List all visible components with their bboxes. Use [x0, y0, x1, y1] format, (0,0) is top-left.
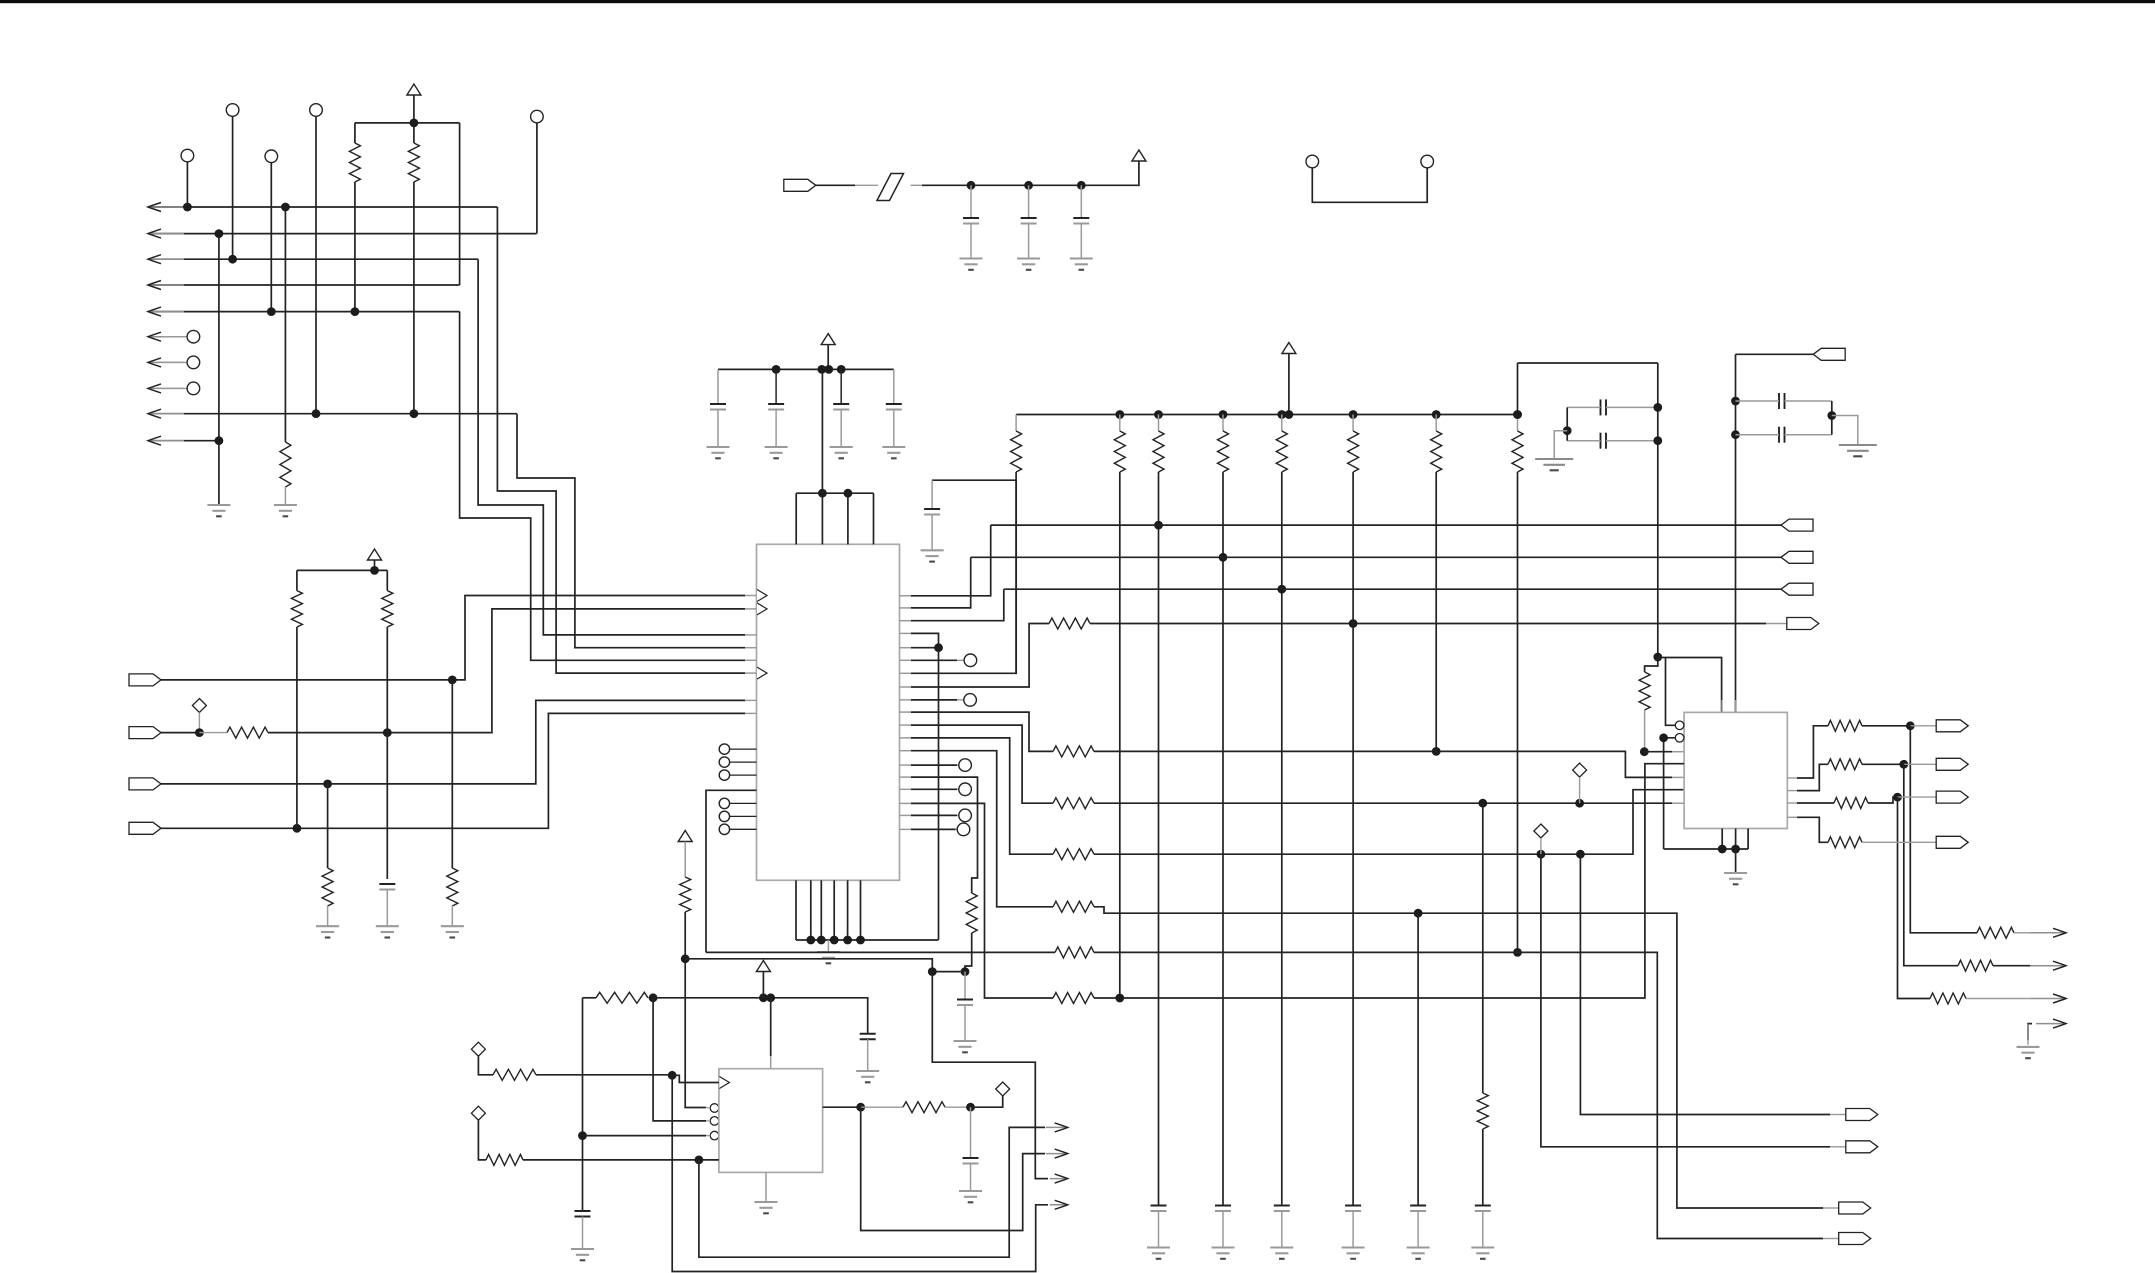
wire diamond854 stem: [1540, 838, 1542, 854]
wire col219: [218, 234, 220, 505]
wire p633: [911, 633, 939, 647]
junction row623: [1349, 619, 1358, 628]
terminal circle r8: [187, 382, 200, 395]
junction rail414: [1115, 410, 1124, 419]
wire row997 left: [583, 997, 597, 999]
wire col1482 a: [1482, 803, 1484, 1093]
wire tag1208 lead: [1823, 1207, 1839, 1209]
wire col685 drop: [685, 959, 706, 1108]
power arrow VCC5: [1282, 343, 1296, 354]
wire bus row r10: [152, 440, 219, 442]
wire rail 570: [297, 569, 387, 571]
wire stub r7: [162, 361, 187, 363]
wire res1644 link: [1645, 657, 1658, 672]
wire cap932 drop: [931, 480, 933, 509]
junction 685-958: [681, 954, 690, 963]
pin stub U2 r3: [1787, 802, 1797, 804]
arrow right q932: [2030, 928, 2066, 937]
wire bank top 1436: [1435, 415, 1437, 432]
junction rail414: [1219, 410, 1228, 419]
pin stub U1 right: [900, 802, 912, 804]
wire VCC1 stem: [413, 95, 415, 123]
wire cap970 drop: [970, 1107, 972, 1158]
wire bus row r4: [152, 284, 460, 286]
wire col387 mid: [386, 627, 388, 733]
wire row1107 lead: [945, 1106, 971, 1108]
pin stub U1 right: [900, 659, 912, 661]
wire cc1 right: [1606, 406, 1658, 408]
junction t2-diamond: [195, 728, 204, 737]
wire b2: [1664, 738, 1676, 849]
resistor row1107: [903, 1102, 945, 1113]
junction cd2: [1731, 430, 1740, 439]
wire tag1146 lead: [1830, 1146, 1846, 1148]
wire U1 tp4: [873, 493, 875, 544]
wire cap gnd: [893, 410, 895, 448]
wire p712: [911, 712, 1053, 751]
arrow left r9: [148, 409, 184, 418]
ground rail369: [707, 447, 730, 458]
resistor col971: [966, 893, 977, 933]
wire col971 lower: [965, 933, 972, 972]
wire tag1114 lead: [1830, 1114, 1846, 1116]
capacitor rail369: [886, 404, 902, 410]
wire v1910: [1910, 726, 1977, 933]
resistor R_b: [408, 143, 419, 182]
wire stair1: [460, 312, 745, 661]
pin stub U1 right: [900, 788, 912, 790]
pin input arrow U1: [757, 667, 767, 679]
wire q725 out: [1862, 725, 1910, 727]
resistor row623: [1049, 618, 1090, 629]
wire row971: [932, 971, 965, 973]
ic U2: [1684, 712, 1787, 828]
arrow left r10: [148, 436, 184, 445]
pin stub U2 r4: [1787, 816, 1797, 818]
wire row751 stub: [1644, 751, 1672, 753]
junction row997 770: [766, 993, 775, 1002]
pin stub U1 left: [745, 659, 757, 661]
capacitor rail369: [768, 404, 784, 410]
arrow right out1204: [1050, 1200, 1068, 1209]
wire d1 row: [536, 1074, 672, 1076]
pin circle stub: [730, 828, 757, 830]
pin circle U1 left: [719, 824, 729, 834]
junction rail414 tri: [1285, 410, 1294, 419]
wire p699: [911, 699, 957, 701]
net tag out623: [1787, 618, 1819, 630]
wire botcap gnd 1353: [1352, 1211, 1354, 1248]
pin stub U2 r2: [1787, 790, 1797, 792]
wire row997 lead: [648, 997, 653, 999]
wire p660: [911, 659, 957, 661]
terminal circle E: [265, 150, 278, 163]
wire cc2 right: [1606, 440, 1658, 442]
wire p803: [911, 803, 1053, 998]
pin clock arrow U3: [719, 1077, 729, 1089]
wire u2 bottom: [1664, 848, 1749, 850]
wire E drop: [270, 163, 272, 312]
pin circle stub: [730, 748, 757, 750]
wire col672: [672, 1075, 1048, 1271]
diamond row803: [1573, 763, 1587, 777]
wire q803 jog: [1868, 797, 1898, 803]
wire col685 low: [684, 912, 686, 959]
arrow right out1127: [1046, 1123, 1068, 1132]
pin input arrow U1: [757, 603, 767, 615]
pin circle stub: [730, 761, 757, 763]
ground col387: [376, 926, 399, 937]
pin circle U1 left: [719, 770, 729, 780]
wire row952 b: [1094, 952, 1823, 1238]
wire cc bracket: [1566, 407, 1568, 440]
capacitor col932: [924, 509, 940, 515]
junction bead rail: [967, 181, 976, 190]
junction bead rail: [1077, 181, 1086, 190]
pin stub U1 right: [900, 814, 912, 816]
capacitor col867: [860, 1034, 876, 1040]
wire cap gnd: [840, 410, 842, 448]
arrow right q965: [2030, 961, 2066, 970]
pin stub U2 r1: [1787, 777, 1797, 779]
wire VCC2 stem: [374, 560, 376, 570]
wire bead rail: [922, 162, 1139, 186]
resistor bank 1158: [1153, 431, 1164, 472]
wire row623: [1090, 623, 1766, 625]
wire t2 diamond stem: [198, 713, 200, 733]
diamond d1: [471, 1042, 485, 1056]
wire U1 bottom bus: [796, 939, 939, 941]
wire U1 tp2: [821, 493, 823, 544]
net tag q764: [1936, 758, 1968, 770]
wire v938: [938, 648, 940, 940]
wire q790: [1797, 764, 1828, 790]
wire r4 riser: [459, 123, 461, 285]
ground col1482: [1471, 1248, 1494, 1259]
resistor R_a: [349, 143, 360, 182]
wire v1903: [1904, 764, 1958, 965]
capacitor cd1: [1779, 393, 1785, 409]
junction row998 1119: [1115, 994, 1124, 1003]
capacitor tm: [1073, 218, 1089, 224]
junction rail414: [1432, 410, 1441, 419]
arrow right out1153: [1046, 1149, 1068, 1158]
wire bank top 1158: [1158, 415, 1160, 432]
wire R_a bottom: [354, 182, 356, 312]
ground brk: [2017, 1047, 2040, 1058]
wire p687: [911, 624, 1049, 688]
resistor bank 1223: [1218, 431, 1229, 472]
wire q764 lead: [1904, 763, 1936, 765]
ground col932: [921, 550, 944, 561]
capacitor col1482: [1475, 1206, 1491, 1212]
wire tag1238 lead: [1823, 1238, 1839, 1240]
wire bank top 1282: [1281, 415, 1283, 432]
junction rail369 c: [824, 365, 833, 374]
ground col970: [959, 1191, 982, 1202]
resistor bank 1016: [1011, 431, 1022, 472]
junction row854 diamond: [1537, 850, 1546, 859]
pin stub U1 right: [900, 607, 912, 609]
ground U3: [755, 1202, 778, 1213]
wire botcap gnd 1158: [1158, 1211, 1160, 1248]
ground rail369: [765, 447, 788, 458]
junction 1158-row525: [1154, 521, 1163, 530]
ground col452: [441, 926, 464, 937]
net tag out1114: [1846, 1109, 1878, 1121]
ground tm: [960, 259, 983, 270]
wire q764 out: [1862, 763, 1904, 765]
pin circle stub: [730, 815, 757, 817]
pin circle U1 left: [719, 744, 729, 754]
net tag row557: [1781, 551, 1813, 563]
junction rail414: [1277, 410, 1286, 419]
net tag q725: [1936, 720, 1968, 732]
wire col1418 gnd: [1417, 1211, 1419, 1248]
wire rail 414: [1016, 414, 1517, 416]
ground bot 1223: [1212, 1248, 1235, 1259]
wire u3 out: [823, 1106, 861, 1108]
resistor t2 series: [227, 727, 268, 738]
diamond row854: [1534, 824, 1548, 838]
capacitor bot 1223: [1215, 1206, 1231, 1212]
pin stub U1 right: [900, 711, 912, 713]
junction d1 672: [668, 1071, 677, 1080]
terminal circle r6: [187, 330, 200, 343]
wire cap gnd: [717, 410, 719, 448]
wire botcap gnd 1282: [1281, 1211, 1283, 1248]
junction u2b1: [1718, 845, 1727, 854]
junction rail369 b: [817, 365, 826, 374]
terminal circle C: [531, 110, 544, 123]
pin stub U1 bottom: [833, 880, 835, 940]
junction t4-col296: [293, 824, 302, 833]
junction t1-col452: [448, 676, 457, 685]
terminal circle p829: [957, 823, 970, 836]
resistor row751: [1053, 746, 1094, 757]
ground col582: [571, 1249, 594, 1260]
wire b2 stub: [706, 1120, 710, 1122]
wire vcc7 stem: [762, 972, 764, 998]
wire bank1353 down: [1352, 472, 1354, 1206]
pin stub U1 left: [745, 672, 757, 674]
wire p660 lead: [957, 659, 964, 661]
wire row557: [971, 556, 1781, 558]
junction u2b2: [1731, 845, 1740, 854]
resistor bank 1282: [1276, 431, 1287, 472]
wire q778: [1797, 726, 1828, 778]
wire bank1281 down: [1281, 472, 1283, 1206]
terminal circle p699: [964, 694, 977, 707]
wire bank1436 down: [1435, 472, 1437, 751]
wire p673: [911, 480, 1016, 673]
junction 1644-751: [1640, 747, 1649, 756]
pin circle U1 left: [719, 757, 729, 767]
wire d2 stem: [478, 1120, 486, 1160]
wire bank top 1120: [1119, 415, 1121, 432]
wire B drop: [315, 116, 317, 413]
wire q817: [1797, 817, 1828, 842]
arrow left r2: [148, 229, 184, 238]
pin stub U1 right: [900, 672, 912, 674]
wire VCC3 stem: [827, 345, 829, 370]
junction q764: [1899, 760, 1908, 769]
wire cc gnd arm: [1554, 431, 1567, 459]
junction q797: [1893, 793, 1902, 802]
pin stub U1 right: [900, 620, 912, 622]
wire cd1 left: [1736, 400, 1780, 402]
pin stub U1 right: [900, 750, 912, 752]
wire p699 lead: [957, 699, 964, 701]
pin stub U1 right: [900, 776, 912, 778]
junction cd bracket: [1827, 411, 1836, 420]
wire col452 lower: [451, 906, 453, 926]
wire t2 b: [268, 609, 745, 733]
pin stub U1 right: [900, 724, 912, 726]
wire q803: [1797, 802, 1834, 804]
wire cap gnd tm: [1028, 224, 1030, 259]
junction A-r3: [228, 255, 237, 264]
net tag xtal: [1813, 348, 1845, 360]
capacitor rail369: [710, 404, 726, 410]
junction E-r5: [267, 307, 276, 316]
wire u2 top2 stub: [1721, 700, 1723, 712]
junction row803 1482: [1478, 799, 1487, 808]
resistor bank 1518: [1512, 431, 1523, 472]
wire bank top 1353: [1352, 415, 1354, 432]
net tag t4: [129, 822, 161, 834]
wire cd2 left: [1736, 434, 1780, 436]
arrow left r1: [148, 203, 184, 212]
terminal circle p765: [959, 759, 972, 772]
capacitor col1418: [1410, 1206, 1426, 1212]
junction col582 1135: [578, 1131, 587, 1140]
wire u2 top2b stub: [1735, 700, 1737, 712]
junction bead rail: [1024, 181, 1033, 190]
junction rail end: [1513, 410, 1522, 419]
capacitor col582: [575, 1211, 591, 1217]
wire b3 stub: [706, 1135, 710, 1137]
power arrow VCC6: [678, 831, 692, 842]
capacitor tm: [1021, 218, 1037, 224]
pin stub U1 bottom: [860, 880, 862, 940]
terminal circle A: [226, 104, 239, 117]
wire cap970 gnd: [970, 1164, 972, 1192]
wire cd bracket: [1831, 401, 1833, 435]
wire col327: [327, 784, 329, 868]
wire U1 tp1: [795, 493, 797, 544]
wire U1 top bracket: [796, 492, 873, 494]
wire cap932 gnd: [931, 515, 933, 551]
wire bus row r1: [152, 206, 497, 208]
terminal circle p660: [964, 654, 977, 667]
capacitor bot 1158: [1151, 1206, 1167, 1212]
wire row998 right: [1094, 764, 1684, 998]
junction bus: [806, 936, 815, 945]
wire row1107 r: [971, 1096, 1003, 1107]
wire p620: [911, 589, 1004, 621]
wire col582: [582, 998, 584, 1211]
wire row623 lead: [1766, 623, 1787, 625]
wire u3 vcc drop: [770, 998, 772, 1056]
wire col867 gnd: [867, 1039, 869, 1071]
junction B-r9: [312, 409, 321, 418]
pin stub U1 right: [900, 737, 912, 739]
ground rail369: [882, 447, 905, 458]
wire bank1119 down: [1119, 472, 1121, 998]
junction bus: [817, 936, 826, 945]
wire row958: [685, 959, 932, 972]
junction row751-1436: [1432, 747, 1441, 756]
wire col452: [451, 680, 453, 868]
capacitor cd2: [1779, 427, 1785, 443]
wire p595: [911, 525, 991, 596]
ground col867: [856, 1071, 879, 1082]
ground bus: [817, 952, 840, 963]
wire brk gnd: [2027, 1024, 2029, 1045]
wire u2 bstub1: [1721, 829, 1723, 850]
junction Ra-r5: [351, 307, 360, 316]
capacitor col965: [957, 1000, 973, 1006]
junction u3 out: [856, 1103, 865, 1112]
wire t2 lead: [199, 732, 227, 734]
resistor bank 1120: [1114, 431, 1125, 472]
wire cc2 left: [1567, 440, 1600, 442]
wire cc1 left: [1567, 406, 1600, 408]
ground rail369: [830, 447, 853, 458]
pin stub U1 right: [900, 595, 912, 597]
pin bubble U2 b2: [1675, 734, 1684, 743]
junction rail414: [1154, 410, 1163, 419]
ground U2: [1724, 873, 1747, 884]
junction D-r1: [183, 203, 192, 212]
net tag t3: [129, 778, 161, 790]
wire row751: [1094, 751, 1672, 777]
wire U1 vcc riser: [821, 369, 823, 493]
net tag t2: [129, 727, 161, 739]
resistor col685: [680, 877, 691, 912]
resistor col327: [322, 868, 333, 906]
power arrow VCC3: [821, 334, 835, 345]
wire p765: [911, 764, 957, 766]
wire p725: [911, 725, 1053, 803]
wire q932 lead: [2014, 932, 2030, 934]
pin stub U1 left: [745, 699, 757, 701]
wire col387 lower: [386, 733, 388, 879]
terminal circle B: [310, 104, 323, 117]
wire p789: [911, 788, 957, 790]
wire brk arrow: [2028, 1024, 2032, 1040]
wire bank1158 down: [1158, 472, 1160, 1206]
junction rail-tri: [410, 119, 419, 128]
resistor col452: [447, 868, 458, 906]
pin stub U1 left: [745, 595, 757, 597]
arrow left r4: [148, 281, 184, 290]
terminal circle J1: [1306, 155, 1319, 168]
wire p829: [911, 828, 956, 830]
pin bubble U3 b1: [710, 1104, 719, 1113]
net tag out1146: [1846, 1141, 1878, 1153]
pin stub U2 p802: [1672, 802, 1684, 804]
wire cap965 gnd: [964, 1005, 966, 1041]
wire bridge363: [1518, 362, 1658, 364]
wire bank1515 down: [1517, 472, 1519, 952]
pin stub U1 right: [900, 632, 912, 634]
wire C drop: [536, 123, 538, 234]
arrow right out1178: [1050, 1174, 1068, 1183]
wire stub r8: [162, 387, 187, 389]
wire stair u3b: [932, 972, 1048, 1179]
